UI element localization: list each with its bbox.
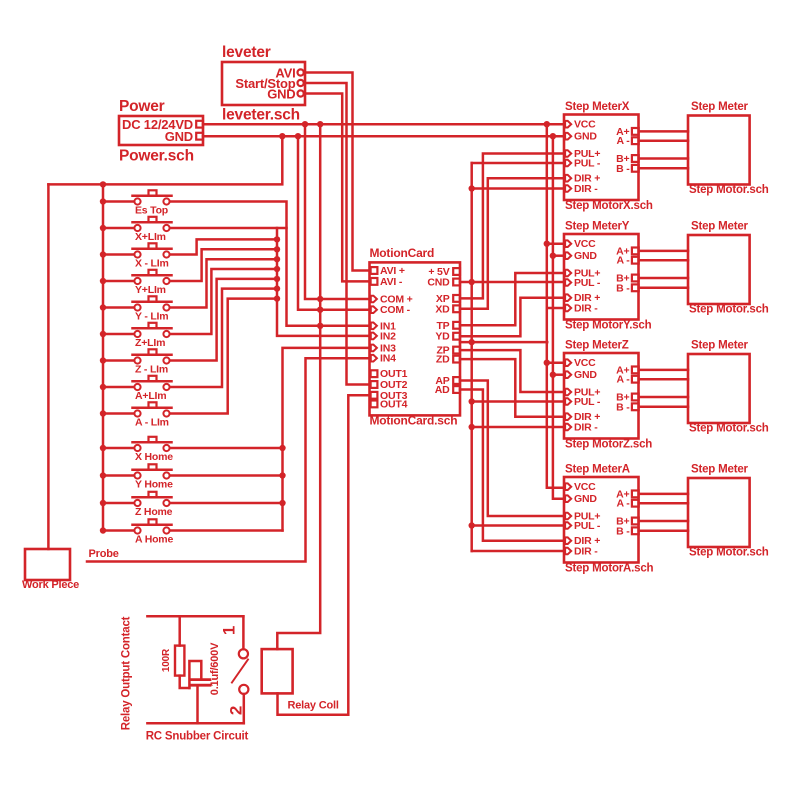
label EsTop (135, 205, 168, 217)
switch XHome (103, 437, 172, 451)
wire A-LIm to limit bus (170, 299, 277, 414)
svg-text:XD: XD (435, 303, 450, 315)
svg-text:leveter: leveter (222, 44, 271, 61)
junction GND bus / Y GND (550, 253, 556, 259)
wire Z-LIm to limit bus (170, 279, 277, 361)
label Step Motor.sch Y (689, 304, 769, 316)
wire GND bus to Y DIR- (549, 307, 565, 310)
pin B+ of Step MeterA (616, 516, 639, 528)
wire common bus to X DIR- (472, 187, 564, 190)
wire Y-LIm to limit bus (170, 259, 277, 307)
pin B - of Step MeterA (616, 525, 639, 537)
pin IN1 of MotionCard (371, 320, 396, 332)
svg-text:Relay Output Contact: Relay Output Contact (121, 616, 133, 730)
wire B+ to motor Z (639, 396, 688, 399)
wire B - to motor Z (639, 406, 688, 409)
junction limit bus / Y-LIm (274, 256, 280, 262)
label Y+LIm (135, 284, 166, 296)
label leveter.sch (222, 107, 300, 124)
junction DC rail / VCC bus (544, 121, 550, 127)
svg-text:PUL -: PUL - (574, 277, 601, 289)
pin TP of MotionCard (436, 320, 460, 332)
wire B - to motor Y (639, 287, 688, 290)
pin PUL - of Step MeterZ (565, 396, 601, 408)
pin IN2 of MotionCard (371, 330, 396, 342)
block MotionCard (370, 262, 461, 415)
svg-text:A - LIm: A - LIm (135, 417, 169, 429)
pin GND of Step MeterY (565, 250, 597, 262)
svg-text:leveter.sch: leveter.sch (222, 107, 300, 124)
pin AP of MotionCard (435, 375, 460, 387)
junction COM+ / relay drop (317, 296, 323, 302)
block leveter (222, 62, 305, 105)
label 0.1uf/600V (209, 642, 221, 695)
svg-text:0.1uf/600V: 0.1uf/600V (209, 642, 221, 695)
junction VCC bus / Z VCC (544, 360, 550, 366)
svg-text:PUL -: PUL - (574, 158, 601, 170)
pin PUL - of Step MeterY (565, 277, 601, 289)
svg-text:A -: A - (616, 498, 630, 510)
wire Y+LIm to limit bus (170, 249, 277, 281)
junction bus / YHome row (100, 472, 106, 478)
switch A+LIm (103, 376, 172, 390)
wire resistor bottom lead (180, 676, 190, 688)
junction bus / Y-LIm row (100, 304, 106, 310)
svg-text:OUT4: OUT4 (380, 398, 408, 410)
switch X+LIm (103, 217, 172, 231)
wire A - to motor Z (639, 378, 688, 381)
pin PUL+ of Step MeterY (565, 268, 600, 280)
svg-text:Step Motor.sch: Step Motor.sch (689, 547, 769, 559)
block Step MeterY (564, 234, 639, 320)
wire common bus vertical (470, 163, 473, 551)
label RC Snubber Circuit (146, 731, 249, 743)
svg-text:GND: GND (574, 493, 597, 505)
label Step Meter motor A title (691, 464, 749, 476)
junction bus / X+LIm row (100, 225, 106, 231)
svg-text:Step MeterA: Step MeterA (565, 464, 630, 476)
junction limit bus / X-LIm (274, 236, 280, 242)
pin VCC of Step MeterA (565, 481, 596, 493)
pin AVI - of MotionCard (371, 276, 403, 288)
block Step MeterZ (564, 353, 639, 439)
svg-text:PUL -: PUL - (574, 396, 601, 408)
junction bus / XHome row (100, 445, 106, 451)
svg-text:A -: A - (616, 255, 630, 267)
svg-text:X Home: X Home (135, 451, 173, 463)
pin DIR + of Step MeterZ (565, 411, 600, 423)
wire GND drop to switch bus (48, 136, 282, 184)
junction GND rail / GND bus (550, 133, 556, 139)
wire AD to A DIR+ (460, 390, 564, 541)
pin B - of Step MeterZ (616, 401, 639, 413)
wire A+ to motor X (639, 130, 688, 133)
wire GND rail (203, 135, 564, 138)
wire B - to motor X (639, 167, 688, 170)
svg-text:B -: B - (616, 525, 630, 537)
pin XP of MotionCard (436, 293, 460, 305)
wire switch bus vertical (102, 184, 105, 530)
pin DIR - of Step MeterX (565, 183, 598, 195)
junction bus / X-LIm row (100, 251, 106, 257)
svg-text:GND: GND (574, 131, 597, 143)
pin OUT2 of MotionCard (371, 379, 408, 391)
block Step Meter motor Y (688, 235, 750, 304)
wire limit bus to MotionCard IN2 (277, 228, 370, 336)
label Step MotorA.sch (565, 563, 654, 575)
label A-LIm (135, 417, 169, 429)
pin IN3 of MotionCard (371, 342, 396, 354)
switch X-LIm (103, 243, 172, 257)
svg-text:Y - LIm: Y - LIm (135, 311, 168, 323)
junction bus / A-LIm row (100, 410, 106, 416)
pin OUT4 of MotionCard (371, 398, 408, 410)
wire snubber top rail (147, 615, 243, 618)
pin DIR - of Step MeterA (565, 546, 598, 558)
svg-text:DIR -: DIR - (574, 546, 598, 558)
svg-text:AD: AD (435, 384, 450, 396)
label Step Motor.sch X (689, 184, 769, 196)
switch AHome (103, 519, 172, 533)
wire X+LIm row to limit bus (170, 227, 287, 230)
pin AVI of leveter (275, 66, 303, 81)
pin GND of Step MeterA (565, 493, 597, 505)
wire A+ to motor Y (639, 250, 688, 253)
svg-text:VCC: VCC (574, 238, 596, 250)
label 100R (161, 648, 172, 672)
label Step MeterY title (565, 221, 630, 233)
wire VCC bus to Y VCC (547, 242, 564, 245)
switch YHome (103, 464, 172, 478)
pin A - of Step MeterA (616, 498, 638, 510)
block Work Piece (25, 549, 70, 580)
svg-text:RC Snubber Circuit: RC Snubber Circuit (146, 731, 249, 743)
pin A - of Step MeterZ (616, 374, 638, 386)
label Y-LIm (135, 311, 168, 323)
svg-text:Es Top: Es Top (135, 205, 168, 217)
svg-text:Step MeterY: Step MeterY (565, 221, 630, 233)
junction bus / AHome row (100, 527, 106, 533)
label Probe (89, 548, 119, 560)
contact 2 terminal (239, 685, 248, 694)
svg-text:Work Plece: Work Plece (22, 579, 79, 591)
wire snubber bottom rail (147, 722, 243, 725)
pin VCC of Step MeterX (565, 119, 596, 131)
svg-text:GND: GND (165, 129, 193, 144)
resistor 100R (175, 646, 184, 676)
wire common bus to A DIR- (472, 550, 564, 553)
wire common bus to A PUL- (472, 524, 564, 527)
wire leveter GND to MotionCard AVI- (305, 94, 370, 282)
wire contact 1 lead (242, 616, 245, 649)
switch Y+LIm (103, 270, 172, 284)
wire common bus to Z DIR- (472, 426, 564, 429)
pin OUT1 of MotionCard (371, 368, 408, 380)
wire Es Top to MotionCard IN1 (170, 202, 370, 326)
junction limit bus / Z-LIm (274, 276, 280, 282)
junction limit bus / Z+LIm (274, 266, 280, 272)
switch EsTop (103, 190, 172, 204)
wire XHome row to home bus (170, 447, 283, 450)
svg-text:Power.sch: Power.sch (119, 148, 194, 165)
svg-text:Step Meter: Step Meter (691, 340, 749, 352)
junction home bus / YHome (279, 472, 285, 478)
label X-LIm (135, 258, 169, 270)
pin A+ of Step MeterY (616, 245, 639, 257)
pin CND of MotionCard (427, 277, 460, 289)
pin COM - of MotionCard (371, 304, 411, 316)
junction switch bus top (100, 181, 106, 187)
label Step MotorZ.sch (565, 439, 652, 451)
junction VCC bus / Y VCC (544, 241, 550, 247)
svg-text:Step Meter: Step Meter (691, 101, 749, 113)
svg-text:Z - LIm: Z - LIm (135, 364, 168, 376)
pin DIR - of Step MeterY (565, 303, 598, 315)
label Step Motor.sch A (689, 547, 769, 559)
svg-text:IN4: IN4 (380, 353, 396, 365)
block Step Meter motor X (688, 116, 750, 185)
wire VCC bus (547, 124, 564, 488)
pin COM + of MotionCard (371, 294, 413, 306)
svg-text:YD: YD (435, 331, 450, 343)
pin AVI + of MotionCard (371, 265, 405, 277)
svg-text:AVI -: AVI - (380, 276, 403, 288)
pin A+ of Step MeterX (616, 126, 639, 138)
pin DC 12/24VD of Power (122, 117, 203, 132)
pin B+ of Step MeterY (616, 273, 639, 285)
wire B+ to motor X (639, 157, 688, 160)
pin A - of Step MeterY (616, 255, 638, 267)
pin B - of Step MeterY (616, 282, 639, 294)
wire CND to Y PUL- (460, 281, 564, 284)
junction limit bus / Y+LIm (274, 246, 280, 252)
label Step MeterX title (565, 101, 630, 113)
junction stub / common bus (469, 339, 475, 345)
svg-text:Power: Power (119, 98, 165, 115)
wire GND bus (553, 136, 564, 499)
svg-text:A -: A - (616, 135, 630, 147)
wire TP to Y PUL+ (460, 273, 564, 325)
junction bus / EsTop row (100, 198, 106, 204)
label XHome (135, 451, 173, 463)
contact blade (232, 660, 248, 683)
wire XP to X PUL+ (460, 154, 564, 299)
junction IN1 / relay drop (317, 323, 323, 329)
label Step MeterA title (565, 464, 630, 476)
label X+LIm (135, 231, 166, 243)
wire contact 2 lead (243, 694, 246, 723)
pin OUT3 of MotionCard (371, 390, 408, 402)
wire YHome row to home bus (170, 474, 283, 477)
pin VCC of Step MeterY (565, 238, 596, 250)
pin PUL+ of Step MeterX (565, 148, 600, 160)
junction bus / ZHome row (100, 500, 106, 506)
pin GND of Power (165, 129, 203, 144)
svg-text:Y+LIm: Y+LIm (135, 284, 166, 296)
svg-text:B -: B - (616, 163, 630, 175)
pin Start/Stop of leveter (235, 76, 303, 91)
wire A - to motor X (639, 139, 688, 142)
svg-text:Relay Coll: Relay Coll (288, 700, 339, 712)
pin DIR + of Step MeterA (565, 535, 600, 547)
wire leveter Start/Stop to MotionCard OUT2 (305, 83, 370, 385)
junction bus / Z+LIm row (100, 331, 106, 337)
junction GND bus / Z GND (550, 372, 556, 378)
switch ZHome (103, 492, 172, 506)
svg-text:X - LIm: X - LIm (135, 258, 169, 270)
label leveter title (222, 44, 271, 61)
svg-text:Step MotorY.sch: Step MotorY.sch (565, 320, 652, 332)
svg-text:Probe: Probe (89, 548, 119, 560)
wire DC rail to COM+ (305, 124, 370, 299)
pin GND of Step MeterZ (565, 369, 597, 381)
label Step Motor.sch Z (689, 423, 769, 435)
svg-text:Y Home: Y Home (135, 479, 173, 491)
svg-text:VCC: VCC (574, 119, 596, 131)
pin B+ of Step MeterZ (616, 392, 639, 404)
label ZHome (135, 506, 173, 518)
svg-text:GND: GND (574, 250, 597, 262)
svg-text:MotionCard: MotionCard (370, 246, 435, 260)
wire YD to Y DIR+ (460, 298, 564, 337)
label MotionCard.sch (370, 414, 458, 428)
pin IN4 of MotionCard (371, 353, 396, 365)
svg-text:MotionCard.sch: MotionCard.sch (370, 414, 458, 428)
wire capacitor bottom lead (196, 687, 199, 724)
svg-text:100R: 100R (161, 648, 172, 672)
wire GND bus to Y GND (553, 254, 564, 257)
wire A - to motor A (639, 502, 688, 505)
svg-text:COM -: COM - (380, 304, 411, 316)
svg-text:GND: GND (574, 369, 597, 381)
wire AP to A PUL+ (460, 381, 564, 517)
junction GND rail / COM- drop (295, 133, 301, 139)
junction common bus / X DIR- (469, 185, 475, 191)
svg-text:Step MotorA.sch: Step MotorA.sch (565, 563, 654, 575)
wire XD to X DIR+ (460, 178, 564, 309)
wire resistor top lead (178, 616, 181, 645)
svg-text:Z Home: Z Home (135, 506, 173, 518)
block Step MeterX (564, 115, 639, 201)
svg-text:A+LIm: A+LIm (135, 390, 166, 402)
junction GND rail / left bus drop (279, 133, 285, 139)
label Power title (119, 98, 165, 115)
junction bus / A+LIm row (100, 384, 106, 390)
wire A Home row to home bus (170, 529, 283, 532)
label contact 1 (220, 626, 239, 635)
label Step MeterZ title (565, 340, 629, 352)
svg-text:Step MotorZ.sch: Step MotorZ.sch (565, 439, 652, 451)
wire A - to motor Y (639, 259, 688, 262)
label YHome (135, 479, 173, 491)
pin PUL+ of Step MeterA (565, 511, 600, 523)
wire DC 12/24V rail (203, 123, 564, 126)
pin PUL - of Step MeterA (565, 520, 601, 532)
junction common bus / Z DIR- (469, 424, 475, 430)
pin A+ of Step MeterZ (616, 364, 639, 376)
wire ZP to Z PUL+ (460, 350, 564, 392)
wire VCC bus to Z VCC (547, 361, 564, 364)
pin GND of leveter (267, 87, 303, 102)
wire GND rail to COM- (298, 136, 370, 310)
wire Probe to MotionCard IN4 (87, 358, 370, 561)
block Step Meter motor A (688, 478, 750, 547)
pin PUL - of Step MeterX (565, 158, 601, 170)
block Step MeterA (564, 477, 639, 563)
pin B+ of Step MeterX (616, 153, 639, 165)
pin GND of Step MeterX (565, 131, 597, 143)
junction DC rail / relay drop (317, 121, 323, 127)
block Power (119, 116, 203, 145)
svg-text:DIR -: DIR - (574, 422, 598, 434)
pin AD of MotionCard (435, 384, 460, 396)
pin ZD of MotionCard (436, 354, 460, 366)
label Step Meter motor Z title (691, 340, 749, 352)
label Relay Output Contact (121, 616, 133, 730)
svg-text:Step Motor.sch: Step Motor.sch (689, 184, 769, 196)
wire common bus to X PUL- (472, 162, 564, 165)
junction common bus / A PUL- (469, 522, 475, 528)
junction bus / Z-LIm row (100, 357, 106, 363)
capacitor plates (192, 680, 210, 686)
pin PUL+ of Step MeterZ (565, 387, 600, 399)
junction limit bus / A+LIm (274, 285, 280, 291)
pin A - of Step MeterX (616, 135, 638, 147)
contact 1 terminal (239, 649, 248, 658)
svg-text:VCC: VCC (574, 481, 596, 493)
svg-text:1: 1 (220, 626, 239, 635)
pin + 5V of MotionCard (428, 266, 460, 278)
wire Z+LIm to limit bus (170, 269, 277, 334)
svg-text:DIR -: DIR - (574, 183, 598, 195)
svg-text:A Home: A Home (135, 534, 173, 546)
pin B - of Step MeterX (616, 163, 639, 175)
label contact 2 (227, 706, 246, 715)
svg-text:B -: B - (616, 401, 630, 413)
wire common bus to Z PUL- (472, 400, 564, 403)
wire A+ to motor Z (639, 369, 688, 372)
svg-text:Step MotorX.sch: Step MotorX.sch (565, 200, 653, 212)
wire B - to motor A (639, 530, 688, 533)
wire leveter AVI to MotionCard AVI+ (305, 73, 370, 271)
wire B+ to motor Y (639, 277, 688, 280)
wire home bus to MotionCard IN3 (283, 348, 370, 531)
svg-text:DIR -: DIR - (574, 303, 598, 315)
wire X-LIm to limit bus (170, 239, 277, 254)
wire GND bus to Z GND (553, 373, 564, 376)
capacitor 0.1uf/600V top electrode (189, 661, 201, 688)
pin YD of MotionCard (435, 331, 460, 343)
svg-text:Step MeterZ: Step MeterZ (565, 340, 629, 352)
junction CND / common bus (469, 279, 475, 285)
svg-text:Step MeterX: Step MeterX (565, 101, 630, 113)
svg-text:ZD: ZD (436, 354, 450, 366)
wire B+ to motor A (639, 520, 688, 523)
block Relay Coil (262, 649, 293, 693)
junction DC rail / COM+ drop (302, 121, 308, 127)
svg-text:VCC: VCC (574, 357, 596, 369)
svg-text:Step Meter: Step Meter (691, 221, 749, 233)
junction common bus / Z PUL- (469, 398, 475, 404)
pin VCC of Step MeterZ (565, 357, 596, 369)
svg-text:A -: A - (616, 374, 630, 386)
label MotionCard title (370, 246, 435, 260)
svg-text:CND: CND (427, 277, 450, 289)
label Step Meter motor X title (691, 101, 749, 113)
label Z-LIm (135, 364, 168, 376)
svg-text:IN2: IN2 (380, 330, 396, 342)
junction home bus / ZHome (279, 500, 285, 506)
